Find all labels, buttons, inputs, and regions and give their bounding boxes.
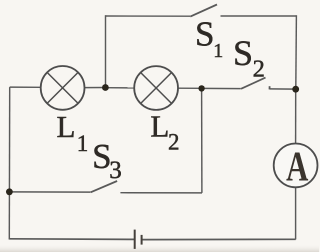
node A junction dot — [102, 84, 109, 91]
switch S1 blade — [190, 5, 217, 17]
wire L1 to node A — [84, 87, 105, 89]
label S3 — [92, 137, 122, 184]
wire left vertical — [8, 87, 10, 239]
battery short plate — [141, 235, 143, 245]
svg-text:S: S — [233, 33, 253, 73]
node D junction dot — [6, 188, 13, 195]
wire S2 to node C — [270, 88, 296, 90]
svg-text:L: L — [150, 109, 169, 144]
wire node B to switch S2 — [202, 87, 241, 89]
lamp L1 — [41, 66, 85, 110]
svg-text:2: 2 — [253, 55, 265, 82]
battery long plate — [134, 230, 136, 249]
wire right vertical middle — [295, 89, 297, 144]
lamp L2 — [134, 66, 178, 110]
wire S3 row right — [120, 192, 202, 194]
page shadow — [0, 244, 319, 252]
svg-text:2: 2 — [168, 130, 180, 155]
wire lamp row left — [10, 86, 41, 88]
wire S3 row left — [9, 191, 90, 193]
wire node A to L2 — [105, 87, 134, 89]
label L2 — [150, 109, 179, 155]
wire top-right horizontal — [221, 15, 297, 17]
wire right vertical lower — [295, 187, 297, 239]
wire vertical top branch — [105, 15, 107, 87]
svg-text:3: 3 — [109, 157, 122, 184]
switch S3 blade — [91, 181, 118, 192]
label S2 — [233, 33, 265, 83]
svg-text:S: S — [195, 15, 214, 54]
node C junction dot — [292, 86, 299, 93]
switch S2 contact tick — [269, 86, 271, 89]
svg-text:L: L — [57, 109, 76, 144]
svg-text:1: 1 — [213, 40, 223, 62]
wire top-left horizontal — [106, 15, 191, 17]
wire S3 branch vertical to node B — [201, 88, 203, 193]
ammeter A — [274, 143, 318, 190]
wire right vertical upper — [295, 15, 298, 89]
wire bottom right — [142, 238, 296, 240]
label L1 — [57, 109, 89, 156]
svg-text:A: A — [286, 143, 309, 190]
wire bottom left — [9, 238, 134, 241]
label S1 — [195, 15, 223, 63]
wire L2 to node B — [178, 87, 202, 89]
node B junction dot — [198, 85, 204, 91]
switch S2 blade — [241, 78, 266, 89]
svg-text:1: 1 — [77, 131, 89, 156]
